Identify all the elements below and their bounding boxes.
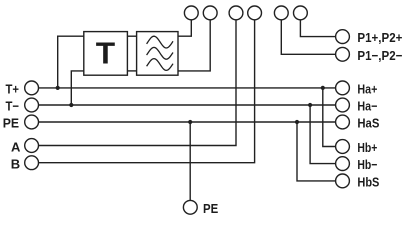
- wire PE down to earth terminal: [189, 122, 191, 200]
- terminal top 6: [294, 6, 308, 20]
- svg-text:Hb+: Hb+: [357, 140, 377, 155]
- svg-text:B: B: [11, 156, 20, 171]
- wire T+ up to transformer primary upper: [58, 36, 84, 88]
- svg-text:PE: PE: [203, 201, 218, 216]
- terminal top 5: [274, 6, 288, 20]
- svg-text:Ha−: Ha−: [357, 99, 377, 114]
- transformer T1: [84, 32, 128, 76]
- terminal P1+,P2+: [336, 30, 350, 44]
- wire T+ line to Ha+: [39, 87, 336, 89]
- node junction T+ to transformer: [56, 86, 60, 90]
- svg-text:P1−,P2−: P1−,P2−: [357, 48, 402, 63]
- wire T- up to transformer primary lower: [71, 71, 84, 105]
- terminal P1-,P2-: [336, 47, 350, 61]
- terminal B: [25, 156, 39, 170]
- wire filter to top terminal 2: [178, 20, 210, 71]
- svg-text:Ha+: Ha+: [357, 81, 377, 96]
- terminal Hb-: [336, 157, 350, 171]
- wire top terminal 6 to P1+,P2+: [300, 20, 335, 37]
- terminal Ha-: [336, 98, 350, 112]
- svg-text:PE: PE: [3, 116, 20, 131]
- terminal Hb+: [336, 140, 350, 154]
- EMC filter: [137, 32, 178, 76]
- node junction HaS to HbS: [295, 120, 299, 124]
- wire Ha+ down to Hb+: [323, 88, 336, 147]
- svg-text:P1+,P2+: P1+,P2+: [357, 30, 402, 45]
- svg-text:HbS: HbS: [357, 174, 379, 189]
- node junction T- to transformer: [69, 103, 73, 107]
- wire Ha- down to Hb-: [310, 105, 336, 164]
- wire B line up to top terminal 4: [39, 20, 255, 163]
- terminal PE bottom: [183, 200, 197, 214]
- svg-text:T+: T+: [6, 81, 20, 96]
- terminal top 3: [229, 6, 243, 20]
- wire T- line to Ha-: [39, 104, 336, 106]
- node junction Ha+ to Hb+: [321, 86, 325, 90]
- terminal T-: [25, 98, 39, 112]
- wire transformer to filter lower: [127, 70, 136, 72]
- wire filter to top terminal 1: [178, 20, 191, 36]
- wire transformer to filter upper: [127, 35, 136, 37]
- node junction Ha- to Hb-: [308, 103, 312, 107]
- wire A line up to top terminal 3: [39, 20, 237, 146]
- terminal A: [25, 139, 39, 153]
- wire top terminal 5 to P1-,P2-: [281, 20, 335, 55]
- svg-text:T: T: [96, 37, 116, 71]
- terminal top 2: [203, 6, 217, 20]
- terminal T+: [25, 81, 39, 95]
- terminal HaS: [336, 115, 350, 129]
- node junction PE to earth: [188, 120, 192, 124]
- terminal HbS: [336, 174, 350, 188]
- svg-text:T−: T−: [6, 99, 20, 114]
- terminal top 4: [248, 6, 262, 20]
- terminal PE: [25, 115, 39, 129]
- wire PE line to HaS: [39, 121, 336, 123]
- svg-text:HaS: HaS: [357, 116, 379, 131]
- terminal top 1: [184, 6, 198, 20]
- wire HaS down to HbS: [297, 122, 336, 181]
- terminal Ha+: [336, 81, 350, 95]
- svg-text:Hb−: Hb−: [357, 157, 377, 172]
- svg-text:A: A: [11, 139, 21, 154]
